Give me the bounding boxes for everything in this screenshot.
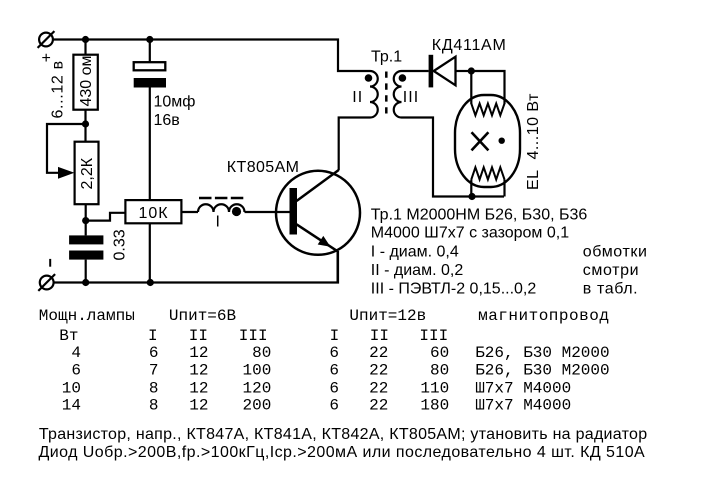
svg-text:Б26, Б30 М2000: Б26, Б30 М2000 [475, 362, 609, 380]
svg-text:12: 12 [189, 362, 208, 380]
svg-text:7: 7 [149, 362, 159, 380]
svg-text:III: III [419, 327, 448, 345]
svg-text:80: 80 [430, 362, 449, 380]
wire C1 bottom lead upper [149, 88, 151, 201]
wire winding III top to diode [402, 70, 429, 72]
junction ground rail / C1 [147, 279, 154, 286]
svg-text:Б26, Б30 М2000: Б26, Б30 М2000 [475, 344, 609, 362]
svg-text:Ш7х7 М4000: Ш7х7 М4000 [475, 379, 571, 397]
wire pot wiper feedback [47, 124, 86, 173]
resistor R3 10K [125, 200, 181, 223]
svg-text:22: 22 [369, 344, 388, 362]
lamp EL1 top filament [471, 104, 504, 116]
lamp EL1 envelope [455, 95, 520, 187]
junction top rail / R1 [82, 36, 89, 43]
svg-text:0.33: 0.33 [112, 229, 129, 260]
svg-text:Тр.1 М2000НМ Б26, Б30, Б36: Тр.1 М2000НМ Б26, Б30, Б36 [371, 207, 588, 224]
svg-text:Uпит=12в: Uпит=12в [349, 307, 426, 325]
wire emitter down [337, 251, 339, 283]
wire top rail [53, 40, 370, 72]
svg-text:II: II [352, 89, 363, 106]
wire C2 bottom lead [85, 260, 87, 283]
wire 430om bottom lead [84, 110, 86, 142]
svg-text:8: 8 [149, 379, 159, 397]
wire node A to R3 [86, 213, 126, 221]
svg-text:110: 110 [420, 379, 449, 397]
lamp EL1 bottom-left pin [470, 180, 472, 197]
svg-text:смотри: смотри [583, 262, 639, 279]
diode VD1 cathode bar [429, 55, 434, 88]
svg-text:Мощн.лампы: Мощн.лампы [39, 307, 135, 325]
svg-text:60: 60 [430, 344, 449, 362]
lamp EL1 inner dot [499, 138, 505, 144]
wire pot bottom lead [85, 204, 87, 235]
svg-text:II: II [189, 327, 208, 345]
resistor R1 430om [73, 55, 97, 110]
diode VD1 triangle [434, 57, 456, 86]
svg-text:430 ом: 430 ом [78, 55, 95, 106]
svg-text:120: 120 [242, 379, 271, 397]
potentiometer R2 2.2K [75, 142, 99, 205]
transistor Q1 emitter arrow [318, 236, 331, 247]
svg-text:6...12 в: 6...12 в [50, 60, 67, 118]
svg-text:12: 12 [189, 397, 208, 415]
svg-text:КТ805АМ: КТ805АМ [227, 159, 300, 176]
wire winding III bottom to lamp bottom [402, 118, 505, 197]
svg-text:180: 180 [420, 397, 449, 415]
wire C1 bottom lead lower [149, 223, 151, 282]
svg-text:III: III [403, 89, 419, 106]
svg-text:14: 14 [62, 397, 81, 415]
inductor L1 winding I [198, 204, 245, 212]
transformer T1 winding II [370, 71, 378, 118]
winding II polarity dot [365, 74, 373, 82]
svg-text:22: 22 [369, 397, 388, 415]
svg-text:EL 4...10 Вт: EL 4...10 Вт [525, 93, 542, 190]
core of winding I (dashed) [199, 197, 244, 199]
svg-text:обмотки: обмотки [583, 244, 648, 261]
junction ground rail / C2 [82, 279, 89, 286]
svg-text:Диод Uобр.>200В,fр.>100кГц,Iср: Диод Uобр.>200В,fр.>100кГц,Iср.>200мА ил… [39, 444, 646, 461]
svg-text:6: 6 [71, 362, 81, 380]
svg-text:12: 12 [189, 379, 208, 397]
wire ground rail [54, 251, 338, 283]
svg-text:100: 100 [242, 362, 271, 380]
svg-text:I: I [330, 327, 340, 345]
transformer T1 winding III [394, 71, 402, 118]
junction lamp bottom [468, 193, 475, 200]
wire C1 top lead [149, 40, 151, 63]
svg-text:в табл.: в табл. [583, 281, 638, 298]
junction top rail / C1 [146, 36, 153, 43]
potentiometer wiper arrow [58, 167, 74, 179]
winding I polarity dot [232, 207, 241, 216]
svg-text:I: I [216, 213, 220, 230]
terminal X1 plus [38, 31, 55, 48]
svg-text:4: 4 [71, 344, 81, 362]
svg-text:6: 6 [329, 379, 339, 397]
wire R3 to L1 [181, 211, 198, 213]
svg-text:Uпит=6В: Uпит=6В [169, 307, 236, 325]
svg-text:КД411АМ: КД411АМ [432, 37, 507, 54]
transistor Q1 KT805AM circle [276, 171, 360, 255]
svg-text:I: I [148, 327, 158, 345]
svg-text:Транзистор, напр., КТ847А, КТ8: Транзистор, напр., КТ847А, КТ841А, КТ842… [39, 426, 648, 443]
svg-text:II - диам. 0,2: II - диам. 0,2 [371, 262, 464, 279]
svg-text:Ш7х7 М4000: Ш7х7 М4000 [475, 397, 571, 415]
svg-text:Тр.1: Тр.1 [371, 49, 402, 66]
svg-text:М4000 Ш7х7 с зазором 0,1: М4000 Ш7х7 с зазором 0,1 [371, 225, 569, 242]
svg-text:Вт: Вт [59, 327, 78, 345]
label minus (rotated) [49, 259, 51, 267]
svg-text:6: 6 [329, 362, 339, 380]
lamp EL1 gas X mark [472, 132, 489, 150]
svg-text:22: 22 [369, 379, 388, 397]
svg-text:10: 10 [62, 379, 81, 397]
transformer T1 core (dashed) [385, 72, 388, 115]
svg-text:6: 6 [329, 397, 339, 415]
capacitor C2 0.33 plate top [69, 235, 103, 244]
wire node to lamp top-left pin [470, 71, 472, 104]
svg-text:80: 80 [252, 344, 271, 362]
svg-text:22: 22 [369, 362, 388, 380]
junction diode / lamp top [468, 67, 475, 74]
capacitor C2 0.33 plate bottom [69, 251, 103, 260]
svg-text:III: III [239, 327, 268, 345]
svg-text:6: 6 [329, 344, 339, 362]
transistor Q1 collector line [297, 170, 339, 201]
node A junction R2/C2/R3 [82, 217, 89, 224]
capacitor C1 10mf plate bottom (solid) [134, 78, 166, 88]
svg-text:8: 8 [149, 397, 159, 415]
wire collector to winding II [339, 118, 370, 171]
svg-text:16в: 16в [154, 112, 180, 129]
transistor Q1 emitter line [297, 224, 338, 251]
svg-text:12: 12 [189, 344, 208, 362]
svg-text:10мф: 10мф [154, 94, 196, 111]
wire node over to lamp top-right pin [471, 71, 504, 104]
svg-text:6: 6 [149, 344, 159, 362]
transistor Q1 base bar [290, 188, 298, 235]
svg-text:III - ПЭВТЛ-2 0,15...0,2: III - ПЭВТЛ-2 0,15...0,2 [371, 281, 537, 298]
capacitor C1 10mf plate top (hollow) [134, 62, 166, 70]
svg-text:10К: 10К [139, 205, 169, 222]
svg-text:магнитопровод: магнитопровод [478, 307, 609, 325]
terminal X2 minus [38, 274, 55, 291]
svg-text:I - диам. 0,4: I - диам. 0,4 [371, 244, 459, 261]
lamp EL1 bottom filament [471, 167, 504, 179]
wire L1 to base [245, 211, 290, 213]
svg-text:II: II [370, 327, 389, 345]
svg-text:200: 200 [242, 397, 271, 415]
wire 430om top lead [84, 40, 86, 55]
wire diode to lamp node [456, 70, 472, 72]
winding III polarity dot [399, 74, 407, 82]
lamp EL1 bottom-right pin [503, 180, 505, 197]
junction R1/R2/wiper [82, 120, 89, 127]
svg-text:2,2К: 2,2К [79, 157, 96, 189]
